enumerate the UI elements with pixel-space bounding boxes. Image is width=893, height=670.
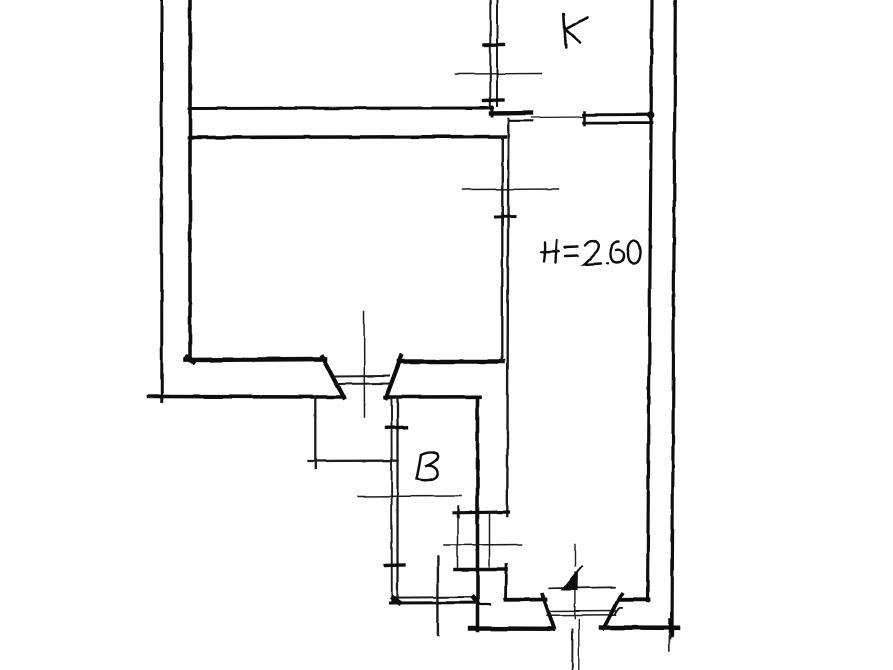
tick: hinge dash y=100 on top pair	[484, 98, 503, 102]
small hook on right jamb	[616, 608, 623, 614]
wall: bathroom bottom double, upper line	[396, 596, 476, 599]
entrance arrow (filled)	[561, 570, 578, 591]
wall: top interior pair left line x=490	[489, 0, 491, 108]
wall: bathroom right vertical x=477	[476, 398, 480, 631]
below-threshold line pair	[571, 630, 573, 670]
tick: left end cap of shaft top wall	[457, 507, 459, 518]
tick: window line y=74	[455, 73, 542, 76]
door jamb: entrance left slant	[543, 595, 555, 628]
wall: bathroom top horizontal	[385, 395, 480, 399]
wall: bottom-right exterior y=627.5	[601, 625, 678, 630]
door centerline through trapezoid	[363, 311, 366, 418]
door: trapezoid threshold lines	[335, 376, 390, 384]
wall: right exterior vertical	[672, 0, 675, 636]
label: H=2.60	[541, 240, 641, 265]
wall: K-room bottom double, lower line	[584, 121, 653, 124]
tick: cross at bottom-right corner	[669, 619, 672, 638]
corner blob bathroom bottom-right + dash	[473, 598, 477, 603]
corner blob bathroom bottom-left	[393, 599, 399, 603]
tick: hinge dash y=427 on bathroom pair	[386, 426, 407, 430]
wall: upper room bottom (horizontal y=108)	[189, 107, 493, 111]
label: B (bathroom)	[417, 452, 439, 480]
tick: window line y=496	[358, 495, 462, 498]
wall: entry left vertical x=506 lower	[505, 565, 508, 600]
dimension line: vertical through bathroom bottom wall	[437, 557, 439, 636]
tick: hinge dash y=216 on interior pair	[496, 215, 515, 219]
wall: bottom-left exterior y=628	[470, 626, 553, 631]
door jamb: entrance right slant	[604, 595, 622, 629]
wall: lower-left room bottom, left of door	[186, 359, 326, 360]
door: K-room opening line	[531, 116, 584, 119]
wall: shaft top horizontal y=512	[454, 510, 509, 514]
tick: window line y=189	[462, 188, 559, 191]
wall: K-room bottom double, left end cap	[583, 112, 586, 125]
wall: interior pair left line x=502	[501, 137, 503, 362]
wall: jog step below top pair	[491, 107, 494, 116]
wall: top interior pair right line x=497	[496, 0, 498, 106]
door jamb: trapezoid left slant	[323, 357, 345, 398]
tick: line y=545 through shaft	[444, 544, 522, 547]
wall: interior pair right line x=508	[507, 119, 508, 516]
shaft rectangle thin verticals	[458, 513, 490, 568]
wall: lower-left room bottom, right of door	[399, 359, 503, 364]
wall: shaft bottom horizontal y=569	[455, 568, 507, 572]
wall: left exterior vertical	[160, 0, 163, 402]
entrance centerline vertical	[574, 544, 576, 618]
wall: K-room bottom double, upper line	[584, 113, 653, 116]
junction dot at right end of K-room bottom wall	[648, 112, 655, 119]
wall: left interior vertical	[188, 0, 192, 361]
wall: lower-left room top (horizontal y=137)	[189, 137, 505, 138]
tick: hinge dash y=565 on bathroom pair	[385, 563, 404, 567]
label: K (kitchen)	[564, 14, 587, 48]
wall: entry top horizontal y=600	[506, 598, 547, 602]
tick: line under arrow y=588	[550, 587, 615, 588]
dimension mark: vertical + horizontal near trapezoid	[309, 397, 398, 469]
door: entrance threshold lines	[547, 611, 616, 616]
wall: K-room stub thin y=121	[509, 120, 532, 122]
tick: hinge dash y=45 on top pair	[484, 43, 504, 47]
wall: bathroom bottom double, lower line	[390, 601, 476, 604]
wall: corner blob at (190,360)	[188, 358, 194, 362]
wall: K-room stub thick y=114	[491, 111, 531, 116]
wall: hallway long horizontal y=396	[148, 395, 344, 399]
wall: right of entrance y=599	[622, 598, 649, 602]
wall: right interior vertical	[648, 0, 653, 601]
door jamb: trapezoid right slant	[386, 356, 402, 398]
wall: bathroom left pair, right line	[396, 398, 398, 602]
wall: bathroom left pair, left line	[391, 399, 393, 604]
short line below bottom-right corner	[668, 633, 670, 651]
